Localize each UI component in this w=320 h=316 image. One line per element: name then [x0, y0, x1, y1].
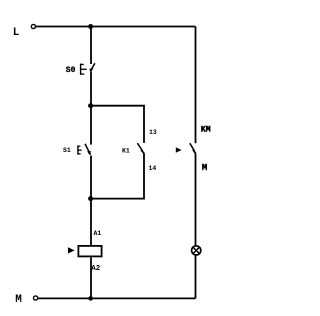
pin 13: [149, 129, 157, 136]
pin A1: [94, 230, 102, 237]
label S1: [63, 147, 71, 154]
svg-text:M: M: [202, 163, 207, 173]
contact KM1 lamp branch: blade: [190, 143, 196, 153]
pushbutton S0 NC stop: blade: [89, 63, 95, 71]
svg-text:L: L: [13, 27, 20, 39]
terminal L circle: [31, 24, 35, 28]
node junction parallel branch top: [88, 103, 93, 108]
svg-text:14: 14: [149, 165, 157, 172]
svg-text:S0: S0: [66, 66, 76, 75]
wire middle column upper: [90, 27, 92, 65]
pin A2: [91, 265, 101, 273]
svg-text:S1: S1: [63, 147, 71, 154]
wire bottom rail M: [38, 297, 195, 299]
svg-text:M: M: [15, 294, 22, 306]
svg-text:A1: A1: [94, 230, 102, 237]
wire middle column to coil: [90, 199, 92, 246]
label S0: [66, 66, 76, 75]
coil KM1 marker triangle: [68, 247, 75, 253]
terminal L label: [13, 27, 20, 39]
node junction top rail / middle column: [88, 24, 93, 29]
svg-text:A2: A2: [91, 265, 101, 273]
label KM: [201, 125, 211, 134]
svg-text:KM: KM: [201, 125, 211, 134]
wire middle column below S1: [90, 156, 92, 199]
pin 14: [149, 165, 157, 172]
coil KM1 rectangle: [78, 246, 101, 257]
wire middle column below S0: [90, 72, 92, 106]
wire top rail L: [36, 26, 196, 28]
wire parallel branch top edge: [91, 106, 144, 143]
wire right column upper: [195, 27, 197, 144]
terminal M label: [15, 294, 22, 306]
wire right column lower: [195, 255, 197, 298]
wire right column middle: [195, 153, 197, 245]
label K1: [122, 148, 130, 155]
pushbutton S0 actuator E: [81, 64, 87, 75]
pushbutton S1 NO start: blade: [85, 144, 91, 155]
svg-text:K1: K1: [122, 148, 130, 155]
contact KM1 lamp branch marker triangle: [176, 147, 182, 152]
lamp H1: [192, 246, 201, 255]
wire parallel branch bottom edge: [91, 153, 144, 198]
node junction bottom rail / middle column: [88, 296, 93, 301]
terminal M circle: [34, 296, 38, 300]
wire middle column below coil: [90, 257, 92, 298]
label M1: [202, 163, 207, 173]
contact KM1 aux holding: blade: [137, 143, 144, 153]
wire middle column to S1: [90, 106, 92, 145]
svg-text:13: 13: [149, 129, 157, 136]
node junction parallel branch bottom: [88, 196, 93, 201]
pushbutton S1 actuator E: [78, 145, 82, 154]
